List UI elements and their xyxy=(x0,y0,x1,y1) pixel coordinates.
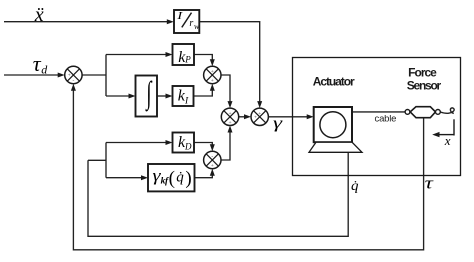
arrow into kI xyxy=(166,94,173,99)
wire tau feedback xyxy=(73,90,423,250)
wire J1 output with split to kP and integrator xyxy=(82,74,106,76)
wire qdot feedback xyxy=(88,153,348,237)
wire sensor tail with hook xyxy=(440,108,454,113)
svg-text:-: - xyxy=(72,78,74,84)
arrow into Jbottom bottom xyxy=(210,169,215,176)
summing junction Jtop xyxy=(204,66,221,84)
wire to integrator xyxy=(106,95,129,97)
arrow into I/rw xyxy=(167,19,174,24)
svg-text:cable: cable xyxy=(375,113,397,124)
svg-text:+: + xyxy=(211,69,214,75)
arrow into actuator xyxy=(307,114,314,119)
arrow into gamma_kf xyxy=(141,175,148,180)
block kP xyxy=(173,44,195,66)
wire kI output to Jtop bottom xyxy=(194,90,213,96)
wire kP output to Jtop xyxy=(194,55,212,61)
wire qdot feed join xyxy=(88,159,106,161)
svg-text:P: P xyxy=(184,54,191,64)
svg-text:w: w xyxy=(194,22,200,31)
summing junction J1 xyxy=(65,66,82,84)
summing junction J2 xyxy=(221,108,238,126)
svg-text:): ) xyxy=(185,168,191,189)
arrow into Jtop bottom xyxy=(210,84,215,91)
wire I/rw output to J3 top xyxy=(199,22,259,103)
arrow into J2 bottom xyxy=(228,126,233,133)
arrow into J1 bottom (feedback) xyxy=(71,84,76,91)
block kI xyxy=(173,86,194,106)
svg-text:γ: γ xyxy=(273,115,284,132)
svg-text:r: r xyxy=(189,18,193,29)
wire J3 output gamma to actuator xyxy=(268,116,307,118)
actuator monitor icon xyxy=(309,107,362,152)
wire gamma_kf output to Jbottom bottom xyxy=(195,175,213,178)
arrowheads xyxy=(58,19,314,180)
svg-text:d: d xyxy=(41,62,48,76)
wire to kP xyxy=(106,54,166,56)
wire Jbottom output to J2 bottom xyxy=(221,132,230,160)
svg-text:+: + xyxy=(254,115,257,121)
svg-text:x: x xyxy=(444,133,451,148)
svg-text:ẍ: ẍ xyxy=(34,4,44,26)
wire to gamma_kf xyxy=(106,177,142,179)
wire integrator to kI xyxy=(157,95,166,97)
svg-text:Force: Force xyxy=(408,65,437,79)
arrow into J1 left xyxy=(58,73,65,78)
wire xddot input xyxy=(4,21,168,23)
svg-text:D: D xyxy=(184,142,192,152)
wire tau_d input xyxy=(4,74,59,76)
wire cable monitor to sensor xyxy=(352,111,407,113)
wire J2 output to J3 xyxy=(239,116,245,118)
block I/rw xyxy=(174,9,200,33)
svg-text:(: ( xyxy=(169,168,175,189)
arrow into J2 top xyxy=(228,101,233,108)
svg-text:+: + xyxy=(68,73,71,79)
svg-text:I: I xyxy=(176,9,183,22)
arrow into J3 left xyxy=(244,114,251,119)
arrow into kD xyxy=(166,140,173,145)
force sensor icon xyxy=(405,107,440,118)
svg-text:Actuator: Actuator xyxy=(313,75,355,89)
big box plant xyxy=(293,58,461,176)
wire split vertical kD/gammakf xyxy=(105,143,107,178)
svg-text:-: - xyxy=(211,154,213,160)
svg-text:Sensor: Sensor xyxy=(407,79,442,93)
arrow into J3 top xyxy=(257,101,262,108)
arrow into kP xyxy=(166,52,173,57)
wire kD output to Jbottom xyxy=(194,143,212,146)
svg-text:+: + xyxy=(211,163,214,169)
svg-text:+: + xyxy=(228,120,231,126)
svg-text:q̇: q̇ xyxy=(351,179,358,194)
block kD xyxy=(173,133,195,153)
svg-text:τ: τ xyxy=(425,174,434,192)
svg-text:+: + xyxy=(211,78,214,84)
x coordinate marker xyxy=(439,119,455,135)
wire kD input xyxy=(106,142,166,144)
svg-text:+: + xyxy=(258,111,261,117)
arrow into integrator xyxy=(129,94,136,99)
wire split vertical kP/integrator xyxy=(105,55,107,97)
summing junction Jbottom xyxy=(204,151,221,169)
block integrator xyxy=(136,75,158,117)
summing junction J3 xyxy=(251,108,268,125)
svg-text:+: + xyxy=(228,111,231,117)
block gamma_kf xyxy=(148,164,195,191)
arrow into Jtop top xyxy=(210,59,215,66)
svg-text:q̇: q̇ xyxy=(176,170,184,186)
arrow into Jbottom top xyxy=(210,144,215,151)
wire Jtop output to J2 top xyxy=(221,75,230,102)
